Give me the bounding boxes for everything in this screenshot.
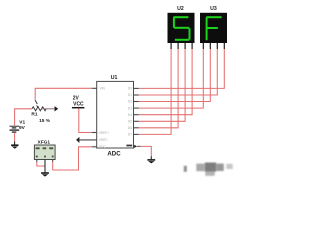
on-page connector arrow at R1 right: [42, 106, 59, 111]
wire D5 to U2 pin3: [139, 49, 185, 121]
wire XFG1 plus to common: [37, 162, 45, 166]
battery V1: [10, 126, 20, 132]
svg-text:D0: D0: [128, 87, 132, 91]
svg-text:V1: V1: [19, 119, 25, 125]
potentiometer R1: [31, 100, 50, 124]
wire VCC to ADC VREF+: [79, 108, 92, 132]
wire D7 to U2 pin1: [139, 49, 171, 134]
svg-text:VREF-: VREF-: [99, 138, 109, 142]
wire EOC to ground: [141, 146, 152, 156]
svg-text:15 %: 15 %: [39, 118, 51, 124]
ADC U1 box: [97, 75, 134, 158]
wire D1 to U3 pin3: [139, 49, 218, 95]
ADC pin labels: [99, 87, 132, 150]
wire battery to ground: [14, 133, 16, 142]
svg-text:U1: U1: [111, 75, 118, 81]
svg-text:VCC: VCC: [73, 102, 84, 108]
function generator XFG1: [34, 139, 55, 159]
wire R1 left to battery: [15, 109, 32, 126]
wire VIN to potentiometer wiper: [35, 88, 91, 100]
svg-text:R1: R1: [31, 112, 37, 118]
svg-text:U3: U3: [210, 6, 217, 12]
ADC VIN pin stub: [92, 87, 97, 89]
svg-text:SOC: SOC: [99, 145, 107, 149]
svg-text:VREF+: VREF+: [99, 131, 110, 135]
svg-text:2V: 2V: [73, 95, 80, 101]
XFG1 pin stubs: [37, 160, 53, 163]
ADC right data pin stubs D0-D7: [134, 88, 139, 134]
ADC VREF+ pin stub: [92, 132, 97, 134]
svg-text:U2: U2: [177, 6, 184, 12]
wire D4 to U2 pin4: [139, 49, 192, 115]
wire D0 to U3 pin4: [139, 49, 225, 88]
ADC EOC pin arrow: [134, 145, 140, 148]
hex display U2: [168, 6, 195, 49]
wire D6 to U2 pin2: [139, 49, 178, 128]
ground (EOC): [147, 156, 155, 163]
wire D2 to U3 pin2: [139, 49, 211, 102]
svg-text:ADC: ADC: [107, 150, 121, 157]
svg-text:D3: D3: [128, 106, 132, 110]
ground (XFG1 common): [41, 160, 49, 177]
svg-text:D6: D6: [128, 126, 132, 130]
svg-text:D5: D5: [128, 120, 132, 124]
wire XFG1 minus to ADC SOC: [53, 147, 92, 170]
ADC SOC pin stub: [92, 146, 97, 148]
svg-text:D1: D1: [128, 93, 132, 97]
wire D3 to U3 pin1: [139, 49, 204, 108]
svg-text:9V: 9V: [19, 125, 26, 131]
on-page connector arrow at VREF-: [76, 137, 97, 143]
VCC power symbol: [72, 95, 85, 107]
svg-text:VIN: VIN: [100, 87, 106, 91]
svg-text:D2: D2: [128, 100, 132, 104]
watermark: [184, 163, 233, 176]
hex display U3: [200, 6, 227, 49]
ADC EOC internal mark: [126, 145, 132, 147]
svg-text:D7: D7: [128, 133, 132, 137]
ground (battery): [11, 141, 18, 148]
svg-text:D4: D4: [128, 113, 132, 117]
